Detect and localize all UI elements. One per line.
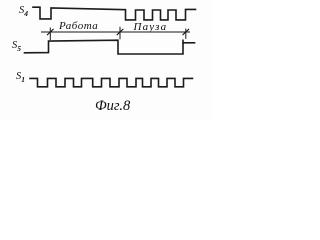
waveform S4 <box>33 7 196 20</box>
label S1 <box>16 71 25 84</box>
label Rabota <box>59 20 98 32</box>
wire S5 end tick <box>183 42 195 44</box>
waveform S5 <box>25 40 184 54</box>
label S4 <box>19 5 28 18</box>
label S5 <box>12 40 21 53</box>
waveform S1 <box>30 78 193 86</box>
extension line middle <box>119 27 121 40</box>
tick middle <box>117 29 123 35</box>
extension line left <box>49 28 51 41</box>
caption Fig.8 <box>95 98 130 115</box>
label Pauza <box>134 21 168 33</box>
dimension line <box>41 31 190 33</box>
extension line right <box>185 29 187 39</box>
tick left <box>47 29 53 35</box>
tick right <box>183 29 189 35</box>
